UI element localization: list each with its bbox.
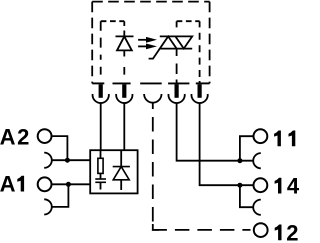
wire from A2 circle <box>52 136 67 160</box>
triac cell dashed box right edge <box>199 21 201 83</box>
enclosure bottom edge segment 4 <box>168 82 189 84</box>
resistor R1 top wire <box>100 150 102 158</box>
junction A1 <box>66 182 71 187</box>
junction A2 <box>65 158 70 163</box>
svg-text:A2: A2 <box>0 124 31 149</box>
LED D1 cathode bar <box>116 35 134 37</box>
socket column 5 <box>191 94 207 103</box>
label 14 digit 1 <box>275 178 282 194</box>
photo-triac left triangle <box>160 36 177 48</box>
LED cell dashed box left edge <box>100 21 102 74</box>
label 11 digit 1 <box>289 131 296 147</box>
input circuit box <box>90 150 137 193</box>
capacitor C1 bottom plate <box>95 181 106 183</box>
diode D2 top wire <box>120 151 122 167</box>
wire column 1 to input box <box>100 103 102 150</box>
svg-text:A: A <box>0 172 17 197</box>
label 12 digit 1 <box>275 225 282 241</box>
wire column 4 to terminal 11 <box>177 103 254 161</box>
wire junction 14 down to socket <box>240 185 254 207</box>
triac cell dashed box left edge <box>176 21 178 83</box>
plug pin column 1 <box>99 84 103 98</box>
wire from A1 circle to input box <box>52 183 90 185</box>
LED D1 anode wire <box>123 31 125 37</box>
terminal circle 12 <box>254 223 268 237</box>
enclosure bottom edge segment 2 <box>113 82 131 84</box>
plug pin column 4 <box>175 84 179 98</box>
resistor R1 lower wire <box>100 173 102 179</box>
diode D2 lower wire <box>120 180 122 190</box>
plug pin column 2 <box>122 84 126 98</box>
socket A2 (open left) <box>44 153 52 168</box>
svg-text:2: 2 <box>286 220 300 243</box>
wire A2 socket to input box <box>52 159 90 161</box>
socket A1 (open left) <box>44 199 52 214</box>
enclosure bottom edge segment 5 <box>196 82 210 84</box>
dashed wire to terminal 12 <box>153 117 251 230</box>
junction 11 <box>237 158 242 163</box>
socket 14 (open right) <box>253 200 261 215</box>
label 11 digit 1 <box>274 131 281 147</box>
junction 14 <box>237 183 242 188</box>
svg-text:4: 4 <box>287 174 300 199</box>
triac cell dashed box top edge <box>177 20 200 22</box>
photo-triac bottom bar <box>160 48 192 50</box>
terminal circle 14 <box>254 178 268 192</box>
photo-triac right triangle <box>175 36 192 48</box>
light emission arrow 2 <box>138 44 157 50</box>
corner of dashed wire <box>153 224 159 230</box>
optocoupler enclosure dashed box U1 left edge <box>91 2 93 84</box>
photo-triac gate wire <box>149 49 160 59</box>
wire A1 junction down to socket <box>52 184 68 207</box>
wire column 5 to terminal 14 <box>200 103 254 185</box>
enclosure bottom edge segment 3 <box>140 82 162 84</box>
plug pin column 5 <box>198 84 202 98</box>
light emission arrow 1 <box>138 37 157 43</box>
diode D2 cathode bar <box>113 166 130 168</box>
capacitor C1 lower wire <box>100 182 102 189</box>
terminal circle A2 <box>38 129 52 143</box>
socket column 3 (no pin) <box>144 94 161 103</box>
label A1 digit 1 <box>17 176 24 192</box>
optocoupler enclosure dashed box U1 top edge <box>92 1 209 3</box>
LED D1 triangle <box>117 36 132 50</box>
wire stub below socket 3 <box>152 103 154 109</box>
LED D1 lower wire <box>123 50 125 56</box>
LED cell dashed box right edge <box>123 21 125 74</box>
socket column 2 <box>116 94 132 103</box>
optocoupler enclosure dashed box U1 right edge <box>209 2 211 84</box>
capacitor C1 top plate <box>95 178 106 180</box>
photo-triac top bar <box>160 35 192 37</box>
LED cell dashed box top edge <box>101 20 125 22</box>
wire riser to terminal 11 <box>240 136 254 161</box>
diode D2 triangle <box>113 167 129 180</box>
photo-triac lower terminal wire <box>176 49 178 56</box>
terminal circle 11 <box>254 129 268 143</box>
socket column 4 <box>168 94 184 103</box>
wire column 2 to input box <box>123 103 125 150</box>
enclosure bottom edge segment 1 <box>92 82 104 84</box>
socket column 1 <box>93 94 109 103</box>
resistor R1 <box>98 158 103 173</box>
terminal circle A1 <box>38 177 52 191</box>
socket 11 (open right) <box>253 153 261 168</box>
